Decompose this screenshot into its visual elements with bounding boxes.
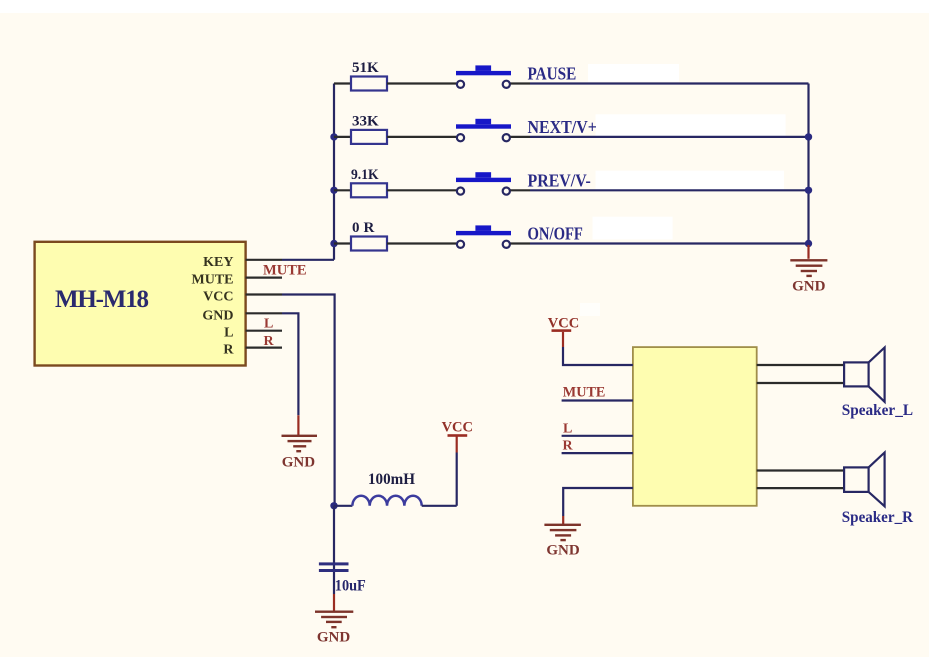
power VCC at amplifier — [548, 316, 579, 348]
row 3 PREV/V- — [330, 167, 812, 198]
junction left bus row3 — [330, 187, 337, 194]
svg-text:GND: GND — [317, 630, 351, 646]
svg-text:51K: 51K — [352, 60, 379, 76]
svg-text:L: L — [563, 422, 572, 437]
speaker Speaker_R — [842, 453, 914, 527]
wire S2 right stub — [511, 136, 531, 138]
svg-text:VCC: VCC — [203, 290, 233, 305]
wire S3 right stub — [511, 189, 531, 191]
wire S4 right stub — [511, 242, 531, 244]
wire resistor R3 left lead — [334, 189, 351, 191]
resistor R3 9.1K — [351, 183, 387, 197]
svg-text:L: L — [264, 317, 273, 332]
svg-text:R: R — [264, 334, 275, 349]
svg-text:MUTE: MUTE — [192, 273, 234, 288]
capacitor C1 10uF — [319, 562, 349, 572]
wire resistor R4 left lead — [334, 242, 351, 244]
svg-text:R: R — [563, 439, 574, 454]
switch S3 PREV — [456, 172, 511, 195]
ground right bus GND — [790, 245, 827, 295]
wire R1 to switch S1 — [387, 82, 456, 84]
junction left bus row2 — [330, 133, 337, 140]
speaker Speaker_L — [842, 348, 913, 420]
wire S3 to right bus — [530, 189, 809, 191]
pin VCC stub — [246, 293, 282, 295]
switch S4 ONOFF — [456, 225, 511, 248]
ground module GND — [282, 415, 318, 470]
resistor R4 0R — [351, 237, 387, 251]
svg-text:VCC: VCC — [442, 420, 473, 436]
ground capacitor GND — [315, 594, 353, 646]
resistor R2 33K — [351, 130, 387, 144]
svg-text:GND: GND — [792, 279, 826, 295]
pin KEY stub — [246, 259, 282, 261]
row 2 NEXT/V+ — [330, 113, 812, 143]
svg-text:MUTE: MUTE — [263, 263, 307, 279]
wire S1 right stub — [511, 82, 531, 84]
junction right bus row2 — [805, 133, 812, 140]
wire amp to speaker R top — [757, 469, 844, 471]
wire inductor to VCC — [456, 453, 458, 506]
wire L to amplifier — [562, 435, 633, 437]
amplifier U2 — [633, 347, 757, 506]
svg-text:PAUSE: PAUSE — [528, 64, 577, 84]
row 4 ON/OFF — [330, 220, 812, 251]
svg-text:100mH: 100mH — [368, 471, 416, 488]
junction left bus row4 — [330, 240, 337, 247]
svg-text:GND: GND — [282, 455, 316, 471]
wire R to amplifier — [562, 452, 633, 454]
junction right bus row3 — [805, 187, 812, 194]
svg-text:GND: GND — [546, 543, 580, 559]
wire VCC to amplifier — [563, 347, 633, 365]
white patch row3 — [596, 171, 784, 190]
wire R3 to switch S3 — [387, 189, 456, 191]
svg-text:KEY: KEY — [203, 255, 233, 270]
white patch row2 — [596, 114, 786, 136]
svg-text:L: L — [224, 326, 233, 341]
pin R stub — [246, 347, 282, 349]
ground amplifier GND — [544, 516, 581, 559]
svg-text:10uF: 10uF — [335, 578, 366, 595]
switch S2 NEXT — [456, 119, 511, 141]
svg-text:GND: GND — [202, 308, 233, 323]
power VCC at inductor — [442, 420, 473, 453]
row 1 PAUSE — [334, 60, 809, 91]
svg-text:ON/OFF: ON/OFF — [528, 224, 583, 244]
pin L stub — [246, 330, 282, 332]
svg-text:VCC: VCC — [548, 316, 579, 332]
svg-text:MH-M18: MH-M18 — [55, 286, 149, 313]
wire amp to speaker L top — [757, 364, 844, 366]
svg-text:R: R — [223, 343, 234, 358]
wire amplifier GND — [563, 488, 633, 516]
svg-text:33K: 33K — [352, 113, 379, 129]
junction right bus row4 — [805, 240, 812, 247]
wire KEY to bus — [282, 259, 334, 261]
junction VCC/inductor node — [330, 502, 337, 509]
svg-text:Speaker_R: Speaker_R — [842, 509, 914, 526]
wire VCC to inductor node — [282, 295, 335, 507]
pin GND stub — [246, 312, 282, 314]
svg-text:NEXT/V+: NEXT/V+ — [528, 117, 597, 137]
wire S4 to right bus — [530, 242, 809, 244]
svg-text:9.1K: 9.1K — [351, 167, 379, 183]
inductor L1 100mH — [334, 496, 457, 506]
wire amp to speaker R bottom — [757, 487, 844, 489]
svg-text:0R: 0R — [352, 220, 378, 236]
svg-text:MUTE: MUTE — [563, 384, 606, 400]
wire resistor R2 left lead — [334, 136, 351, 138]
wire node to capacitor — [333, 506, 335, 594]
module MH-M18 — [35, 242, 246, 366]
wire R4 to switch S4 — [387, 242, 456, 244]
wire MUTE to amplifier — [562, 399, 633, 401]
white patch row4 — [593, 217, 673, 240]
wire S2 to right bus — [530, 136, 809, 138]
wire: left key bus vertical — [333, 84, 335, 260]
wire S1 to right bus — [530, 82, 809, 84]
wire R2 to switch S2 — [387, 136, 456, 138]
wire resistor R1 left lead — [334, 82, 351, 84]
wire amp to speaker L bottom — [757, 382, 844, 384]
white patch near amp top — [580, 303, 600, 316]
pin MUTE stub — [246, 277, 282, 279]
svg-text:Speaker_L: Speaker_L — [842, 402, 913, 419]
switch S1 PAUSE — [456, 65, 511, 88]
svg-text:PREV/V-: PREV/V- — [528, 170, 591, 190]
wire: right gnd bus vertical — [807, 84, 809, 244]
white patch row1 — [588, 64, 679, 82]
wire GND down — [282, 313, 298, 415]
resistor R1 51K — [351, 77, 387, 91]
